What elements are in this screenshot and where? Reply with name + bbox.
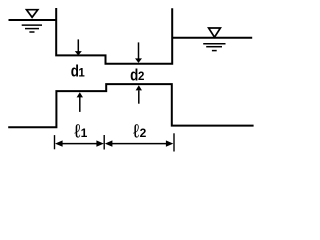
downstream water surface line xyxy=(173,37,253,39)
l1 dimension line with arrowheads xyxy=(55,140,104,146)
svg-text:1: 1 xyxy=(81,126,88,140)
d2 depth arrow pointing down to water surface xyxy=(135,42,142,63)
d2 depth arrow pointing up to floor xyxy=(136,85,142,104)
svg-text:ℓ: ℓ xyxy=(74,121,80,142)
channel floor profile with two steps xyxy=(8,84,253,127)
upstream drop wall and channel water-surface profile (d1 surface, step, d2 surface, downstream rise) xyxy=(56,8,172,64)
downstream water level symbol: hatch lines xyxy=(203,44,225,51)
upstream water level symbol: hatch lines xyxy=(22,25,42,32)
d1 depth arrow pointing up to floor xyxy=(77,92,83,112)
svg-text:2: 2 xyxy=(138,71,144,83)
l2 dimension line with arrowheads xyxy=(105,140,174,146)
dimension extension tick at right step xyxy=(173,133,175,151)
d1 depth arrow pointing down to water surface xyxy=(75,39,82,55)
dimension extension tick at left step xyxy=(54,135,56,149)
svg-text:2: 2 xyxy=(140,126,147,140)
upstream water level symbol: triangle xyxy=(27,10,38,18)
downstream water level symbol: triangle xyxy=(209,28,221,37)
svg-text:ℓ: ℓ xyxy=(133,121,139,142)
svg-text:1: 1 xyxy=(78,67,85,79)
dimension extension tick at middle step xyxy=(103,135,105,150)
upstream water surface line xyxy=(9,19,58,21)
